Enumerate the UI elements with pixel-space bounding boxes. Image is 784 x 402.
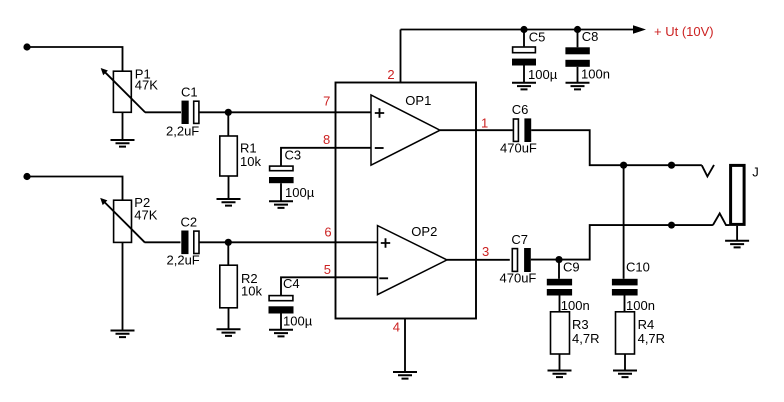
junction node C10 tap [620, 162, 627, 169]
ground under C8 [566, 83, 590, 90]
capacitor C1 [166, 85, 199, 139]
capacitor C6 [500, 102, 537, 156]
svg-text:C5: C5 [529, 30, 546, 45]
wire OP2 output [447, 259, 510, 261]
svg-text:4,7R: 4,7R [638, 331, 665, 346]
potentiometer P1 [101, 67, 159, 113]
junction node C1/R1 [225, 109, 232, 116]
wire P2 to ground [122, 243, 124, 331]
svg-text:C3: C3 [285, 147, 302, 162]
wire junction to R1 [227, 112, 229, 136]
svg-text:4,7R: 4,7R [572, 331, 599, 346]
svg-text:10k: 10k [241, 284, 262, 299]
svg-text:100n: 100n [626, 298, 655, 313]
input terminal IN2 [23, 173, 30, 180]
wire P1 wiper to C1 [145, 111, 181, 113]
junction node C9 tap [555, 256, 562, 263]
svg-text:2: 2 [387, 67, 394, 82]
svg-text:100n: 100n [561, 298, 590, 313]
svg-text:7: 7 [323, 94, 330, 109]
capacitor C7 [500, 232, 537, 285]
svg-text:8: 8 [323, 132, 330, 147]
wire junction to C9 [558, 260, 560, 279]
wire C1 to op-amp pin7 [199, 111, 371, 113]
pin 4 wire [404, 319, 406, 373]
svg-text:470uF: 470uF [500, 270, 537, 285]
op-amp OP1 [371, 93, 440, 165]
capacitor C10 [612, 259, 655, 313]
jack J [731, 165, 759, 225]
svg-text:10k: 10k [240, 154, 261, 169]
junction node C2/R2 [225, 239, 232, 246]
svg-text:C10: C10 [626, 259, 650, 274]
resistor R2 [220, 265, 263, 308]
wire C4 to ground [280, 314, 282, 330]
wire C6 to jack tip [531, 130, 702, 165]
svg-text:C2: C2 [181, 215, 198, 230]
wire +V rail [401, 29, 634, 31]
wire C9 to R3 [559, 296, 561, 312]
jack sleeve contact [713, 213, 729, 225]
capacitor C3 [269, 147, 315, 200]
capacitor C8 [565, 29, 610, 83]
svg-text:OP2: OP2 [411, 224, 437, 239]
svg-text:C9: C9 [563, 259, 580, 274]
svg-text:3: 3 [482, 244, 489, 259]
svg-text:C8: C8 [582, 29, 599, 44]
ground under P1 [111, 140, 135, 147]
ground under jack [725, 241, 749, 248]
wire C3 to ground [280, 183, 282, 201]
svg-text:100µ: 100µ [283, 313, 313, 328]
wire top rail to C10 [623, 165, 625, 279]
wire R1 to ground [228, 176, 230, 199]
ground under pin 4 [393, 372, 417, 379]
svg-text:C4: C4 [283, 276, 300, 291]
svg-text:100n: 100n [581, 67, 610, 82]
svg-text:4: 4 [393, 320, 400, 335]
wire C2 to op-amp pin6 [199, 241, 378, 243]
svg-text:470uF: 470uF [500, 141, 537, 156]
svg-text:6: 6 [324, 224, 331, 239]
svg-text:R4: R4 [638, 317, 655, 332]
IC body [336, 83, 477, 319]
svg-text:2,2uF: 2,2uF [166, 123, 199, 138]
wire input2 to P2 [27, 177, 123, 201]
ground under C4 [269, 330, 293, 337]
svg-text:C1: C1 [181, 85, 198, 100]
ground under R1 [217, 199, 241, 206]
capacitor C9 [547, 259, 590, 313]
resistor R1 [220, 136, 262, 176]
svg-text:47K: 47K [135, 78, 158, 93]
wire junction to R2 [227, 242, 229, 265]
resistor R3 [551, 312, 600, 354]
ground under R4 [613, 371, 637, 378]
ground under R2 [217, 329, 241, 336]
potentiometer P2 [100, 195, 158, 242]
pin 2 wire [400, 30, 402, 83]
wire P1 to ground [122, 112, 124, 140]
capacitor C4 [269, 276, 313, 328]
svg-text:OP1: OP1 [405, 93, 431, 108]
wire pin8 to C3 [281, 148, 371, 166]
wire input1 to P1 [27, 47, 123, 71]
ground under P2 [111, 331, 135, 338]
terminal dot sleeve [668, 222, 675, 229]
wire P2 wiper to C2 [145, 241, 181, 243]
svg-text:2,2uF: 2,2uF [167, 253, 200, 268]
ground under R3 [548, 371, 572, 378]
svg-text:100µ: 100µ [528, 67, 558, 82]
wire C10 to R4 [624, 296, 626, 312]
resistor R4 [616, 312, 666, 354]
terminal dot tip [668, 162, 675, 169]
svg-text:R3: R3 [572, 317, 589, 332]
power arrow [633, 25, 646, 34]
ground under C3 [269, 201, 293, 208]
capacitor C2 [167, 215, 200, 268]
svg-text:C7: C7 [511, 232, 528, 247]
wire OP1 output [440, 129, 513, 131]
wire pin5 to C4 [281, 277, 378, 295]
svg-text:100µ: 100µ [285, 185, 315, 200]
ground under C5 [512, 83, 536, 90]
wire jack to ground [736, 226, 738, 241]
wire R4 to ground [624, 354, 626, 371]
svg-text:1: 1 [481, 115, 488, 130]
input terminal IN1 [23, 43, 30, 50]
junction node C8 [574, 26, 581, 33]
svg-text:J: J [752, 165, 759, 180]
op-amp OP2 [378, 224, 448, 295]
wire R2 to ground [228, 308, 230, 330]
svg-text:+ Ut (10V): + Ut (10V) [654, 24, 714, 39]
junction node C5 [520, 26, 527, 33]
wire C7 to junction [531, 225, 713, 260]
svg-text:C6: C6 [512, 102, 529, 117]
svg-text:47K: 47K [134, 208, 157, 223]
wire R3 to ground [559, 354, 561, 371]
svg-text:5: 5 [324, 262, 331, 277]
jack tip contact [702, 165, 714, 177]
capacitor C5 [512, 30, 558, 83]
